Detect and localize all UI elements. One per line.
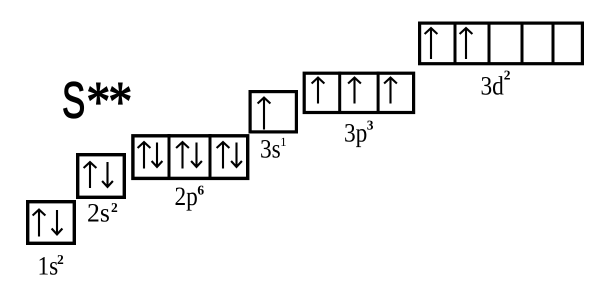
svg-text:6: 6 xyxy=(197,183,204,198)
2s down arrow xyxy=(102,162,113,187)
3d cell2 up arrow xyxy=(460,28,473,59)
svg-text:1: 1 xyxy=(280,135,286,149)
svg-text:2p: 2p xyxy=(175,181,198,211)
2p cell1 up arrow xyxy=(138,142,151,168)
svg-text:*: * xyxy=(108,70,132,133)
svg-text:2: 2 xyxy=(57,252,64,267)
svg-text:3d: 3d xyxy=(481,70,504,100)
3p divider 2 xyxy=(377,72,380,113)
2p cell3 down arrow xyxy=(231,143,242,167)
svg-text:3s: 3s xyxy=(260,134,281,164)
3p orbital row (3 cells) xyxy=(304,73,413,112)
3d cell1 up arrow xyxy=(425,28,438,59)
2p orbital row (3 cells) xyxy=(133,136,248,179)
3d divider 4 xyxy=(552,22,555,64)
2p cell3 up arrow xyxy=(217,142,230,168)
svg-text:2: 2 xyxy=(504,68,511,83)
3s up arrow xyxy=(258,98,271,130)
3d divider 3 xyxy=(521,22,524,64)
3p cell1 up arrow xyxy=(312,78,325,104)
3d divider 1 xyxy=(454,22,457,64)
2p cell1 down arrow xyxy=(152,143,163,167)
2p divider 1 xyxy=(168,134,171,180)
2p divider 2 xyxy=(209,134,212,180)
svg-text:2: 2 xyxy=(111,200,118,215)
svg-text:3p: 3p xyxy=(344,117,367,147)
1s down arrow xyxy=(52,210,63,234)
3p cell3 up arrow xyxy=(384,78,397,104)
1s orbital box xyxy=(28,202,75,244)
svg-text:1s: 1s xyxy=(38,250,59,280)
1s up arrow xyxy=(33,210,46,237)
3p cell2 up arrow xyxy=(348,78,361,104)
2p cell2 down arrow xyxy=(191,143,202,167)
3p divider 1 xyxy=(338,72,341,113)
2p cell2 up arrow xyxy=(176,142,189,168)
svg-text:*: * xyxy=(86,70,110,133)
2s up arrow xyxy=(84,162,97,188)
3d divider 2 xyxy=(488,22,491,64)
svg-text:2s: 2s xyxy=(87,198,110,228)
3d orbital row (5 cells) xyxy=(420,23,583,64)
3s orbital box xyxy=(250,92,296,132)
svg-text:S: S xyxy=(62,72,85,129)
svg-text:3: 3 xyxy=(367,118,374,133)
2s orbital box xyxy=(78,155,125,198)
